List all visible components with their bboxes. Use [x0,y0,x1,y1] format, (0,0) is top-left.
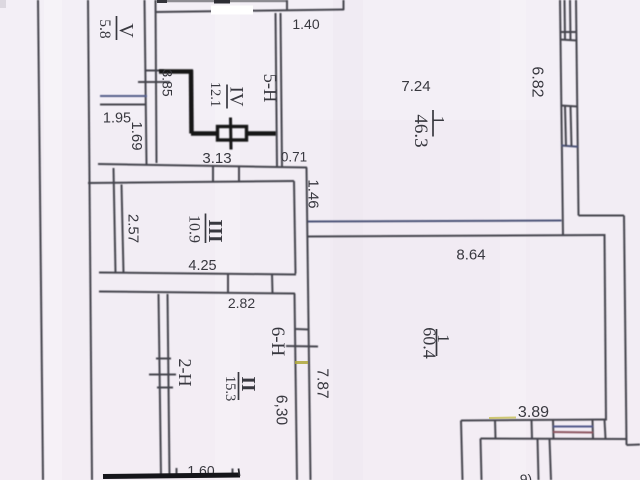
svg-text:II: II [237,376,258,391]
svg-text:12.1: 12.1 [207,82,223,107]
dimension tick x=232 above bottom thick line [232,469,234,477]
svg-text:IV: IV [226,86,247,106]
wall between room V and room IV: left line [145,0,147,164]
svg-text:1.95: 1.95 [103,111,131,127]
door 6-H tick upper [296,328,309,331]
top edge smear of cut wall [157,0,287,2]
fraction bar room 1 (60.4) [436,329,438,356]
svg-text:3.13: 3.13 [202,150,231,167]
right outer wall outer line x~577 [576,0,579,216]
thick cable horizontal from meter box to wall [247,131,277,136]
window W1 internal vertical a [564,0,567,40]
svg-text:15.3: 15.3 [222,376,238,401]
bottom thick wall line [103,475,240,477]
bottom-right wall D top line y~420 [461,420,606,421]
svg-text:3.89: 3.89 [518,404,549,421]
door tick wall C x=228 [227,273,229,293]
door tick in wall A at x=213 [212,166,214,182]
svg-text:2.82: 2.82 [228,295,255,311]
wall D window internal line (reddish) [553,431,593,434]
door 2-H tick middle wide [149,374,176,376]
tick at start of thick line y=70 [145,70,164,72]
room III left wall double: left line x~114 [114,168,116,273]
wire: second left wall vertical line full height [88,0,92,480]
dark smudge at top edge [157,0,167,3]
svg-text:9): 9) [520,471,532,480]
svg-text:0.71: 0.71 [281,150,307,165]
fraction bar room 1 (46.3) [432,110,434,137]
window W1 sill tick y=32 [560,31,577,33]
door 6-H tick lower wide [286,345,318,348]
door 2-H tick upper [156,358,171,360]
opening line y=104.5 [100,104,145,106]
bottom thick wall end tick [239,469,240,477]
svg-text:2.57: 2.57 [125,214,142,243]
door 2-H tick lower [157,387,173,389]
notch vertical left x=287 [286,0,288,11]
wall B bottom line y~236 [308,235,606,237]
svg-text:1: 1 [434,334,453,343]
svg-text:8.64: 8.64 [456,247,485,264]
wall C bottom line y~292 [99,292,295,294]
wall D window tick x=553 [552,420,555,439]
outer wall bottom-right horizontal to edge [627,444,640,447]
top outer wall horizontal line [157,10,345,13]
divider wall rooms II / 60.4: left line x~295 [295,294,298,480]
opening line y=96 (bluish) [100,95,147,97]
yellow artifact tick near 6-H door [295,361,308,364]
notch vertical right x=343 [343,0,345,10]
wall D right jamb x~605 [605,420,606,439]
svg-text:6-H: 6-H [267,327,288,357]
svg-text:1.69: 1.69 [128,121,145,150]
wall A top line y~164-167 [98,164,307,168]
svg-text:III: III [204,219,226,243]
thick cable horizontal to meter box [191,131,218,136]
fraction bar room V [116,16,118,40]
corridor vertical x=481 down [481,439,482,480]
dimension tick y=82 across V/IV wall [138,81,170,83]
window W2 internal vertical b [571,106,572,146]
bottom-right wall D bottom line y~438 [481,438,628,441]
window W1 bottom tick y=40 [560,40,577,41]
wall D window internal line (bluish) [553,426,593,428]
window W1 internal vertical b [569,0,572,40]
wall D tick x=532 [531,420,534,439]
svg-text:6.82: 6.82 [529,66,546,97]
meter box rectangle [218,127,247,141]
window W2 top tick y=106 [561,106,578,107]
wall between room V and room IV: right line [156,0,157,163]
inner right wall vertical x~605 [605,235,607,421]
fraction bar room III [205,214,207,244]
corridor vertical x=461 down [461,421,463,480]
fraction bar room II [238,372,240,400]
room II left wall double: right line [168,294,170,476]
wall D tick x=495 [494,420,497,439]
room IV right wall double line: right [281,13,283,167]
right outer wall inner line x~560 [560,0,563,236]
svg-text:1: 1 [429,116,448,125]
wall A bottom line y~181-183 [88,181,294,183]
room II left wall double: left line [159,294,162,476]
svg-text:10.9: 10.9 [185,215,202,243]
corner vertical x=307 from wall A down to divider wall [307,168,311,480]
door tick wall C x=272 [271,274,274,294]
room III left wall double: right line x~122 [122,185,124,274]
yellow artifact above wall D [489,417,516,420]
svg-text:V: V [115,23,137,38]
thick cable vertical segment [189,70,194,134]
window W2 internal vertical a [565,106,566,146]
wall D window tick x=593 [592,420,595,439]
cross line through meter box [229,118,233,150]
wall B top line y~221 (bluish tint) [308,221,562,222]
svg-text:5-H: 5-H [259,74,279,103]
balcony passage vertical x~538 [538,439,539,480]
room III right wall x=294 [294,181,296,274]
white patch erasing part of top wall [211,6,253,15]
wire: outer left wall vertical line full height [38,0,43,480]
wall C top line y~273 [99,273,296,275]
svg-text:2-H: 2-H [175,359,195,387]
svg-text:6,30: 6,30 [273,395,290,426]
balcony passage vertical x~550 [550,439,552,480]
room IV right wall double line: left [276,13,278,167]
svg-text:5.8: 5.8 [96,19,113,39]
svg-text:1.46: 1.46 [305,179,322,208]
door tick in wall A at x=239 [238,167,240,182]
outer wall step horizontal y=215 [579,215,625,217]
svg-text:4.25: 4.25 [188,258,216,274]
window W2 bottom tick y=146 (bluish) [562,146,579,147]
svg-text:7.87: 7.87 [314,368,331,398]
fraction bar room IV [226,85,228,109]
svg-text:1.40: 1.40 [292,16,319,32]
thick cable horizontal segment from wall to corner [159,69,193,74]
svg-text:7.24: 7.24 [401,78,430,95]
dimension tick x=176 above bottom thick line [176,468,178,476]
svg-text:3.85: 3.85 [160,69,176,96]
svg-text:46.3: 46.3 [410,114,431,147]
outer wall right vertical x~624 [624,216,627,446]
